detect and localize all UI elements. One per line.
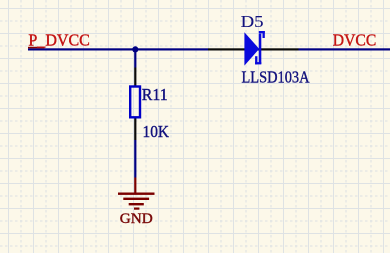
svg-text:R11: R11 — [142, 85, 168, 104]
svg-text:10K: 10K — [143, 122, 170, 141]
svg-text:P_DVCC: P_DVCC — [28, 31, 90, 50]
svg-text:D5: D5 — [241, 12, 264, 31]
svg-text:LLSD103A: LLSD103A — [242, 67, 310, 86]
svg-text:GND: GND — [120, 211, 153, 227]
svg-text:DVCC: DVCC — [333, 30, 377, 49]
